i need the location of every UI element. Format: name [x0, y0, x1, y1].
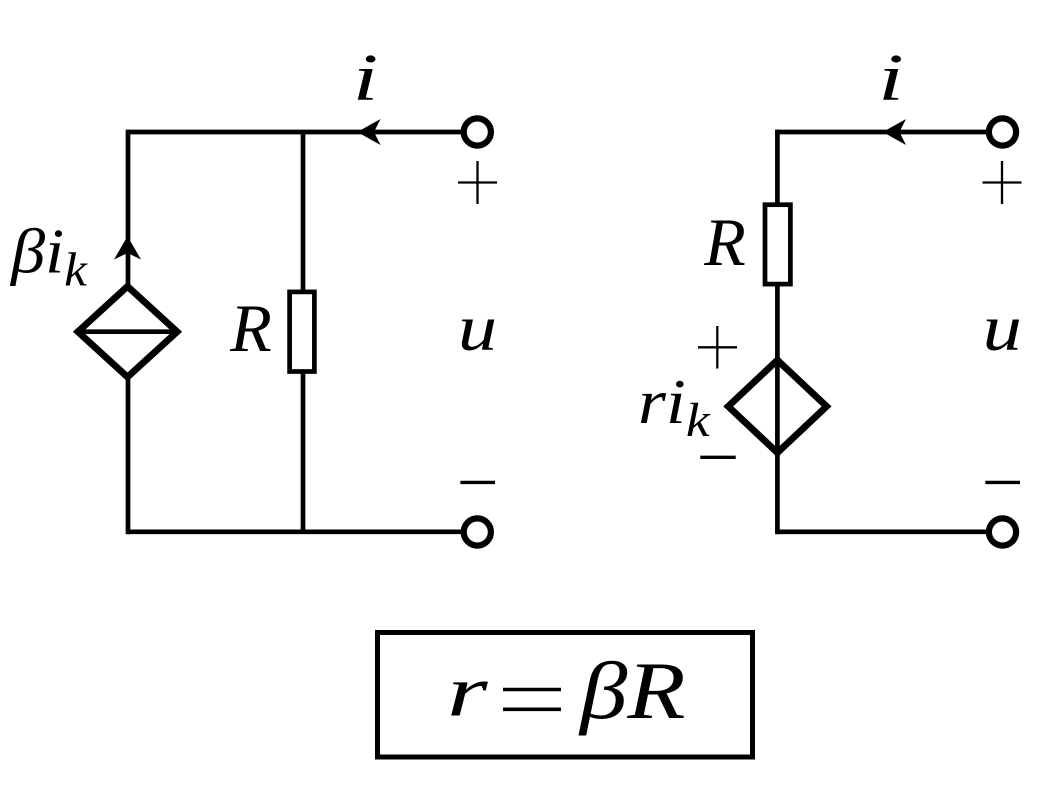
minus sign (right terminal) [985, 481, 1020, 484]
wire: left circuit top horizontal [128, 130, 463, 135]
svg-text:i: i [353, 41, 379, 115]
wire: left circuit left vertical branch [126, 130, 131, 535]
svg-text:u: u [983, 290, 1022, 364]
svg-text:R: R [703, 204, 746, 280]
svg-text:r: r [447, 652, 489, 731]
terminal + (right circuit) [989, 118, 1016, 145]
plus sign (right terminal) [983, 161, 1022, 204]
wire: left circuit resistor branch vertical [301, 132, 306, 532]
voltage source bar (vertical) [775, 357, 780, 456]
current source bar [76, 329, 179, 334]
terminal + (left circuit) [464, 118, 491, 145]
wire: right circuit top horizontal [777, 130, 988, 135]
plus sign (source polarity) [698, 326, 737, 369]
equation box [378, 633, 753, 758]
wire: right circuit vertical branch [775, 130, 780, 535]
resistor R (left) [290, 292, 315, 372]
svg-text:R: R [229, 290, 272, 366]
minus sign (source polarity) [700, 456, 735, 459]
current arrow i (left circuit, pointing left) [357, 119, 380, 145]
terminal - (left circuit) [464, 518, 491, 545]
terminal - (right circuit) [989, 518, 1016, 545]
svg-text:βR: βR [578, 646, 686, 736]
svg-text:i: i [878, 41, 904, 115]
minus sign (left terminal) [460, 481, 495, 484]
current source beta i_k (diamond) [78, 286, 177, 377]
svg-text:u: u [458, 290, 497, 364]
voltage source r i_k (diamond) [728, 360, 826, 453]
plus sign (left terminal) [458, 161, 497, 204]
resistor R (right) [765, 205, 790, 284]
wire: right circuit bottom horizontal [777, 529, 988, 534]
arrow of current source (up) [114, 236, 141, 259]
wire: left circuit bottom horizontal [128, 529, 463, 534]
current arrow i (right circuit, pointing left) [883, 119, 906, 145]
